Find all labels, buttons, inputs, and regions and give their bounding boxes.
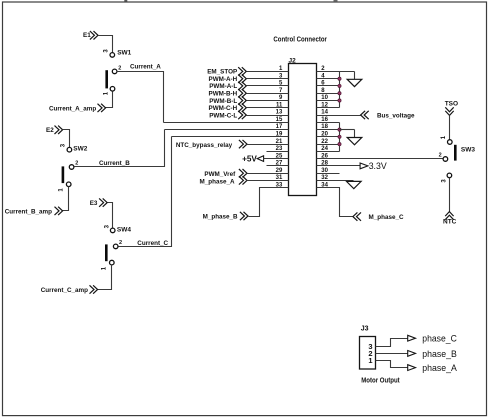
svg-text:PWM-B-L: PWM-B-L — [209, 98, 237, 105]
svg-text:PWM-C-L: PWM-C-L — [209, 112, 237, 119]
output connector Bus_voltage — [361, 111, 369, 119]
svg-text:1: 1 — [102, 266, 108, 270]
svg-text:SW3: SW3 — [461, 147, 475, 154]
wire TSO to SW3 pin 1 — [449, 116, 451, 140]
wire J2 pin 12 to ground bus — [317, 107, 340, 109]
wire J2 pin 4 to ground bus — [317, 78, 340, 80]
svg-text:2: 2 — [118, 65, 121, 71]
output arrow phase_B — [408, 351, 416, 357]
wire J2 pin 34 to M_phase_C — [317, 188, 353, 217]
wire PWM-A-L to J2 pin 5 — [247, 85, 289, 87]
svg-text:3: 3 — [60, 143, 66, 147]
output connector NTC — [445, 212, 453, 220]
input connector M_phase_B — [240, 212, 248, 220]
wire PWM-B-H to J2 pin 7 — [247, 93, 289, 95]
svg-text:EM_STOP: EM_STOP — [207, 69, 237, 76]
wire PWM-A-H to J2 pin 3 — [247, 78, 289, 80]
svg-text:M_phase_C: M_phase_C — [369, 214, 404, 221]
output connector M_phase_C — [353, 212, 361, 220]
wire J3 pin 1 to phase_A — [376, 361, 408, 368]
svg-text:14: 14 — [321, 110, 328, 116]
svg-text:Motor Output: Motor Output — [361, 375, 400, 384]
connector J2 — [289, 64, 317, 196]
wire E3 to SW4 pin 3 — [108, 203, 113, 229]
svg-text:NTC: NTC — [443, 218, 457, 225]
svg-text:2: 2 — [439, 153, 442, 159]
power 3.3V at J2 pin 28 — [317, 165, 363, 167]
ground (pin 32) — [347, 181, 362, 188]
stub wire J2 pin 30 — [317, 173, 340, 175]
svg-text:TSO: TSO — [445, 101, 458, 108]
junction pin 20 — [338, 135, 341, 138]
svg-text:3: 3 — [441, 179, 447, 183]
wire J2 pin 2 to ground — [317, 71, 355, 73]
svg-text:Current_B_amp: Current_B_amp — [5, 209, 52, 216]
svg-text:PWM_Vref: PWM_Vref — [204, 171, 236, 178]
wire J2 pin 8 to ground bus — [317, 93, 340, 95]
svg-text:Current_C_amp: Current_C_amp — [41, 287, 88, 294]
input connector Current_C_amp — [90, 285, 98, 293]
junction pin 10 — [338, 99, 341, 102]
wire E1 to SW1 pin 3 — [99, 36, 113, 53]
stub wire J2 pin 27 — [267, 165, 289, 167]
wire SW1 pin 1 to Current_A_amp — [106, 92, 113, 108]
wire J2 pin 18 to ground bus — [317, 129, 340, 131]
junction pin 8 — [338, 92, 341, 95]
stub wire J2 pin 23 — [267, 151, 289, 153]
svg-text:2: 2 — [75, 161, 78, 167]
svg-text:PWM-A-H: PWM-A-H — [209, 76, 238, 83]
input connector Current_A_amp — [98, 104, 106, 112]
svg-text:22: 22 — [321, 139, 328, 145]
svg-text:J3: J3 — [361, 326, 369, 333]
svg-text:2: 2 — [119, 240, 122, 246]
svg-text:E3: E3 — [90, 200, 98, 207]
svg-text:Bus_voltage: Bus_voltage — [377, 112, 415, 119]
wire J2 pin 32 to ground — [317, 180, 354, 182]
wire EM_STOP to J2 pin 1 — [247, 71, 289, 73]
svg-text:Current_B: Current_B — [99, 160, 130, 167]
svg-text:PWM-C-H: PWM-C-H — [209, 105, 238, 112]
svg-text:phase_C: phase_C — [422, 334, 457, 344]
output arrow phase_C — [408, 335, 416, 341]
wire J2 pin 24 to ground bus — [317, 151, 340, 153]
svg-text:+5V: +5V — [242, 154, 257, 163]
svg-text:PWM-A-L: PWM-A-L — [209, 83, 237, 90]
wire E2 to SW2 pin 3 — [63, 130, 70, 148]
wire J2 pin 33 to M_phase_B — [249, 188, 289, 217]
wire J2 pin 10 to ground bus — [317, 100, 340, 102]
wire J2 pin 16 to ground bus — [317, 122, 340, 124]
wire J2 pin 6 to ground bus — [317, 85, 340, 87]
ground (pins 16-24) — [347, 138, 362, 145]
wire SW4 pin 1 to Current_C_amp — [98, 265, 112, 290]
output arrow phase_A — [408, 365, 416, 371]
svg-text:3: 3 — [104, 49, 110, 53]
svg-text:1: 1 — [59, 188, 65, 192]
svg-text:3: 3 — [105, 224, 111, 228]
ground bus pins 16-24 — [339, 123, 341, 152]
wire J3 pin 2 to phase_B — [376, 353, 408, 355]
svg-text:SW2: SW2 — [73, 146, 87, 153]
svg-text:1: 1 — [368, 356, 372, 365]
junction pin 22 — [338, 143, 341, 146]
svg-text:Current_A: Current_A — [130, 64, 161, 71]
svg-text:NTC_bypass_relay: NTC_bypass_relay — [176, 142, 233, 149]
svg-text:21: 21 — [276, 139, 283, 145]
wire PWM-C-L to J2 pin 13 — [247, 115, 289, 117]
wire J2 pin 22 to ground bus — [317, 144, 340, 146]
svg-text:Control Connector: Control Connector — [273, 36, 327, 43]
wire Current_B to J2 pin 17 — [165, 129, 289, 131]
svg-text:3.3V: 3.3V — [369, 161, 387, 171]
svg-text:PWM-B-H: PWM-B-H — [209, 91, 238, 98]
wire J2 pin 14 Bus_voltage — [317, 115, 361, 117]
wire PWM-C-H to J2 pin 11 — [247, 107, 289, 109]
wire Current_A to J2 pin 15 — [164, 122, 289, 124]
ground (pins 2-12) — [347, 79, 362, 86]
svg-text:E2: E2 — [46, 127, 54, 134]
ground bus pins 2-12 — [339, 72, 341, 108]
junction pin 18 — [338, 128, 341, 131]
svg-text:phase_A: phase_A — [422, 363, 457, 373]
input connector Current_B_amp — [55, 207, 63, 215]
svg-text:SW1: SW1 — [117, 50, 131, 57]
svg-text:13: 13 — [276, 110, 283, 116]
wire J2 pin 26 to SW3 pin 2 — [317, 158, 444, 160]
wire ground branch pin 18 — [340, 129, 355, 131]
svg-text:E1: E1 — [83, 32, 91, 39]
wire J3 pin 3 to phase_C — [376, 339, 408, 347]
wire NTC_bypass_relay to J2 pin 21 — [247, 144, 289, 146]
svg-text:Current_A_amp: Current_A_amp — [49, 105, 96, 112]
wire Current_C to J2 pin 19 — [172, 136, 289, 138]
wire SW3 pin 3 to NTC — [449, 178, 451, 212]
svg-text:M_phase_B: M_phase_B — [203, 214, 238, 221]
junction pin 4 — [338, 77, 341, 80]
wire SW2 pin 1 to Current_B_amp — [63, 187, 69, 211]
svg-text:1: 1 — [104, 91, 110, 95]
svg-text:phase_B: phase_B — [422, 349, 457, 359]
wire PWM-B-L to J2 pin 9 — [247, 100, 289, 102]
svg-text:J2: J2 — [289, 57, 297, 64]
svg-text:1: 1 — [441, 135, 447, 139]
junction pin 6 — [338, 84, 341, 87]
svg-text:SW4: SW4 — [117, 227, 131, 234]
svg-text:M_phase_A: M_phase_A — [200, 178, 235, 185]
wire J2 pin 20 to ground bus — [317, 136, 340, 138]
